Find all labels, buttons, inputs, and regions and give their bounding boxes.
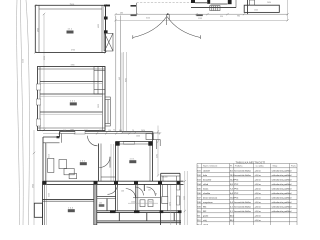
svg-text:1193: 1193 [198,18,202,20]
svg-text:2430: 2430 [267,2,271,4]
svg-text:umyvárna: umyvárna [203,202,213,204]
svg-text:+2,6 m: +2,6 m [255,193,262,195]
svg-text:980: 980 [237,15,240,17]
svg-text:sklad: sklad [203,224,209,225]
svg-text:486: 486 [120,13,123,15]
svg-text:sádrokartón.podhled: sádrokartón.podhled [272,183,293,186]
svg-text:108: 108 [154,194,157,196]
svg-text:WC: WC [203,211,207,213]
svg-text:stáj: stáj [203,219,207,222]
svg-text:Pozn.: Pozn. [291,166,297,168]
svg-text:keramická dlažba: keramická dlažba [234,205,251,208]
svg-text:denní místnost: denní místnost [203,196,218,199]
svg-text:PVC: PVC [234,179,239,181]
svg-text:3565: 3565 [156,154,158,158]
svg-text:PVC: PVC [234,197,239,199]
svg-text:PVC: PVC [234,184,239,186]
svg-text:2510: 2510 [49,154,51,158]
svg-text:PVC: PVC [234,193,239,195]
svg-text:keramická dlažba: keramická dlažba [234,169,251,172]
svg-text:2620: 2620 [98,104,100,108]
svg-text:TABULKA MÍSTNOSTÍ: TABULKA MÍSTNOSTÍ [236,160,266,164]
svg-text:3600: 3600 [33,184,35,188]
svg-text:1200: 1200 [131,202,135,204]
svg-text:sádrokartón.podhled: sádrokartón.podhled [272,210,293,213]
svg-text:3150: 3150 [146,17,150,19]
svg-text:1375: 1375 [170,202,172,206]
svg-text:+2,6 m: +2,6 m [255,170,262,172]
svg-text:zádveří: zádveří [203,169,210,172]
svg-text:107: 107 [148,190,151,192]
svg-text:sádrokartón.podhled: sádrokartón.podhled [272,169,293,172]
svg-text:keramická dlažba: keramická dlažba [234,210,251,213]
svg-text:3500: 3500 [49,193,51,197]
svg-text:+2,6 m: +2,6 m [255,179,262,181]
svg-text:sklad: sklad [203,184,209,186]
svg-text:440: 440 [119,77,121,80]
svg-text:121: 121 [70,101,76,103]
svg-text:chodba: chodba [203,193,211,195]
svg-text:WC: WC [203,206,207,208]
svg-text:keramická dlažba: keramická dlažba [234,201,251,204]
svg-text:1545: 1545 [254,9,258,11]
svg-text:sádrokartón.podhled: sádrokartón.podhled [272,174,293,177]
svg-text:kancelář: kancelář [203,178,211,181]
svg-text:2900: 2900 [184,196,186,200]
svg-text:sádrokartón.podhled: sádrokartón.podhled [272,201,293,204]
svg-text:+2,6 m: +2,6 m [255,188,262,190]
svg-text:šatna: šatna [203,187,209,190]
svg-text:+2,6 m: +2,6 m [255,202,262,204]
svg-text:1000: 1000 [136,136,140,138]
svg-text:2150: 2150 [23,59,25,63]
svg-text:1980: 1980 [71,65,75,67]
svg-text:PVC: PVC [234,188,239,190]
svg-text:6220: 6220 [44,56,46,60]
svg-text:Název místnosti: Název místnosti [203,165,218,168]
svg-text:350: 350 [220,16,223,18]
svg-text:104: 104 [68,207,74,209]
svg-text:8065: 8065 [126,78,128,82]
svg-text:101: 101 [130,158,136,160]
svg-text:keramická dlažba: keramická dlažba [234,174,251,177]
svg-text:4600: 4600 [98,24,100,28]
svg-text:sádrokartón.podhled: sádrokartón.podhled [272,196,293,199]
svg-text:sádrokartón.podhled: sádrokartón.podhled [272,192,293,195]
svg-text:+2,6 m: +2,6 m [255,220,262,222]
svg-text:garáž: garáž [203,214,208,217]
svg-text:+2,6 m: +2,6 m [255,197,262,199]
svg-text:sv. výška: sv. výška [256,166,265,168]
svg-text:+2,6 m: +2,6 m [255,211,262,213]
svg-text:900: 900 [149,202,152,204]
svg-text:sádrokartón.podhled: sádrokartón.podhled [272,178,293,181]
svg-text:sádrokartón.podhled: sádrokartón.podhled [272,205,293,208]
svg-text:4600: 4600 [38,28,40,32]
svg-text:+2,6 m: +2,6 m [255,184,262,186]
svg-text:106: 106 [121,191,124,193]
svg-text:+2,6 m: +2,6 m [255,215,262,217]
svg-text:+2,6 m: +2,6 m [255,175,262,177]
svg-text:+2,6 m: +2,6 m [255,206,262,208]
svg-text:111: 111 [68,29,73,31]
svg-text:sádrokartón.podhled: sádrokartón.podhled [272,187,293,190]
svg-text:Podlaha: Podlaha [235,166,243,168]
svg-text:102: 102 [80,160,86,162]
svg-text:4730: 4730 [71,50,75,52]
